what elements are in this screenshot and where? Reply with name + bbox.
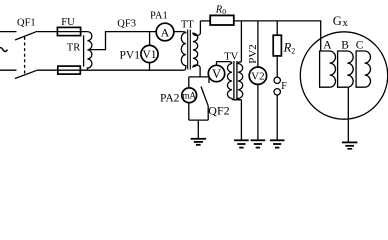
svg-text:TR: TR [67,43,80,54]
svg-text:PV1: PV1 [120,49,141,61]
svg-text:G: G [333,14,342,28]
svg-text:V2: V2 [251,71,264,83]
svg-text:PV2: PV2 [247,44,259,64]
svg-text:QF3: QF3 [117,18,136,29]
svg-text:TV: TV [224,51,238,62]
svg-text:2: 2 [291,47,295,56]
svg-text:QF1: QF1 [17,18,36,29]
svg-text:PA1: PA1 [150,10,168,21]
svg-text:C: C [356,40,364,52]
svg-text:F: F [281,81,287,92]
svg-text:V1: V1 [142,49,156,61]
svg-text:A: A [161,25,170,39]
svg-text:0: 0 [222,7,226,16]
svg-text:PA2: PA2 [160,92,180,104]
svg-text:x: x [343,18,349,29]
svg-text:FU: FU [61,17,75,28]
svg-text:TT: TT [181,20,194,31]
svg-text:B: B [341,40,349,52]
svg-text:mA: mA [182,91,196,101]
svg-text:QF2: QF2 [208,103,229,117]
svg-text:V: V [212,67,221,81]
svg-text:A: A [323,40,332,52]
